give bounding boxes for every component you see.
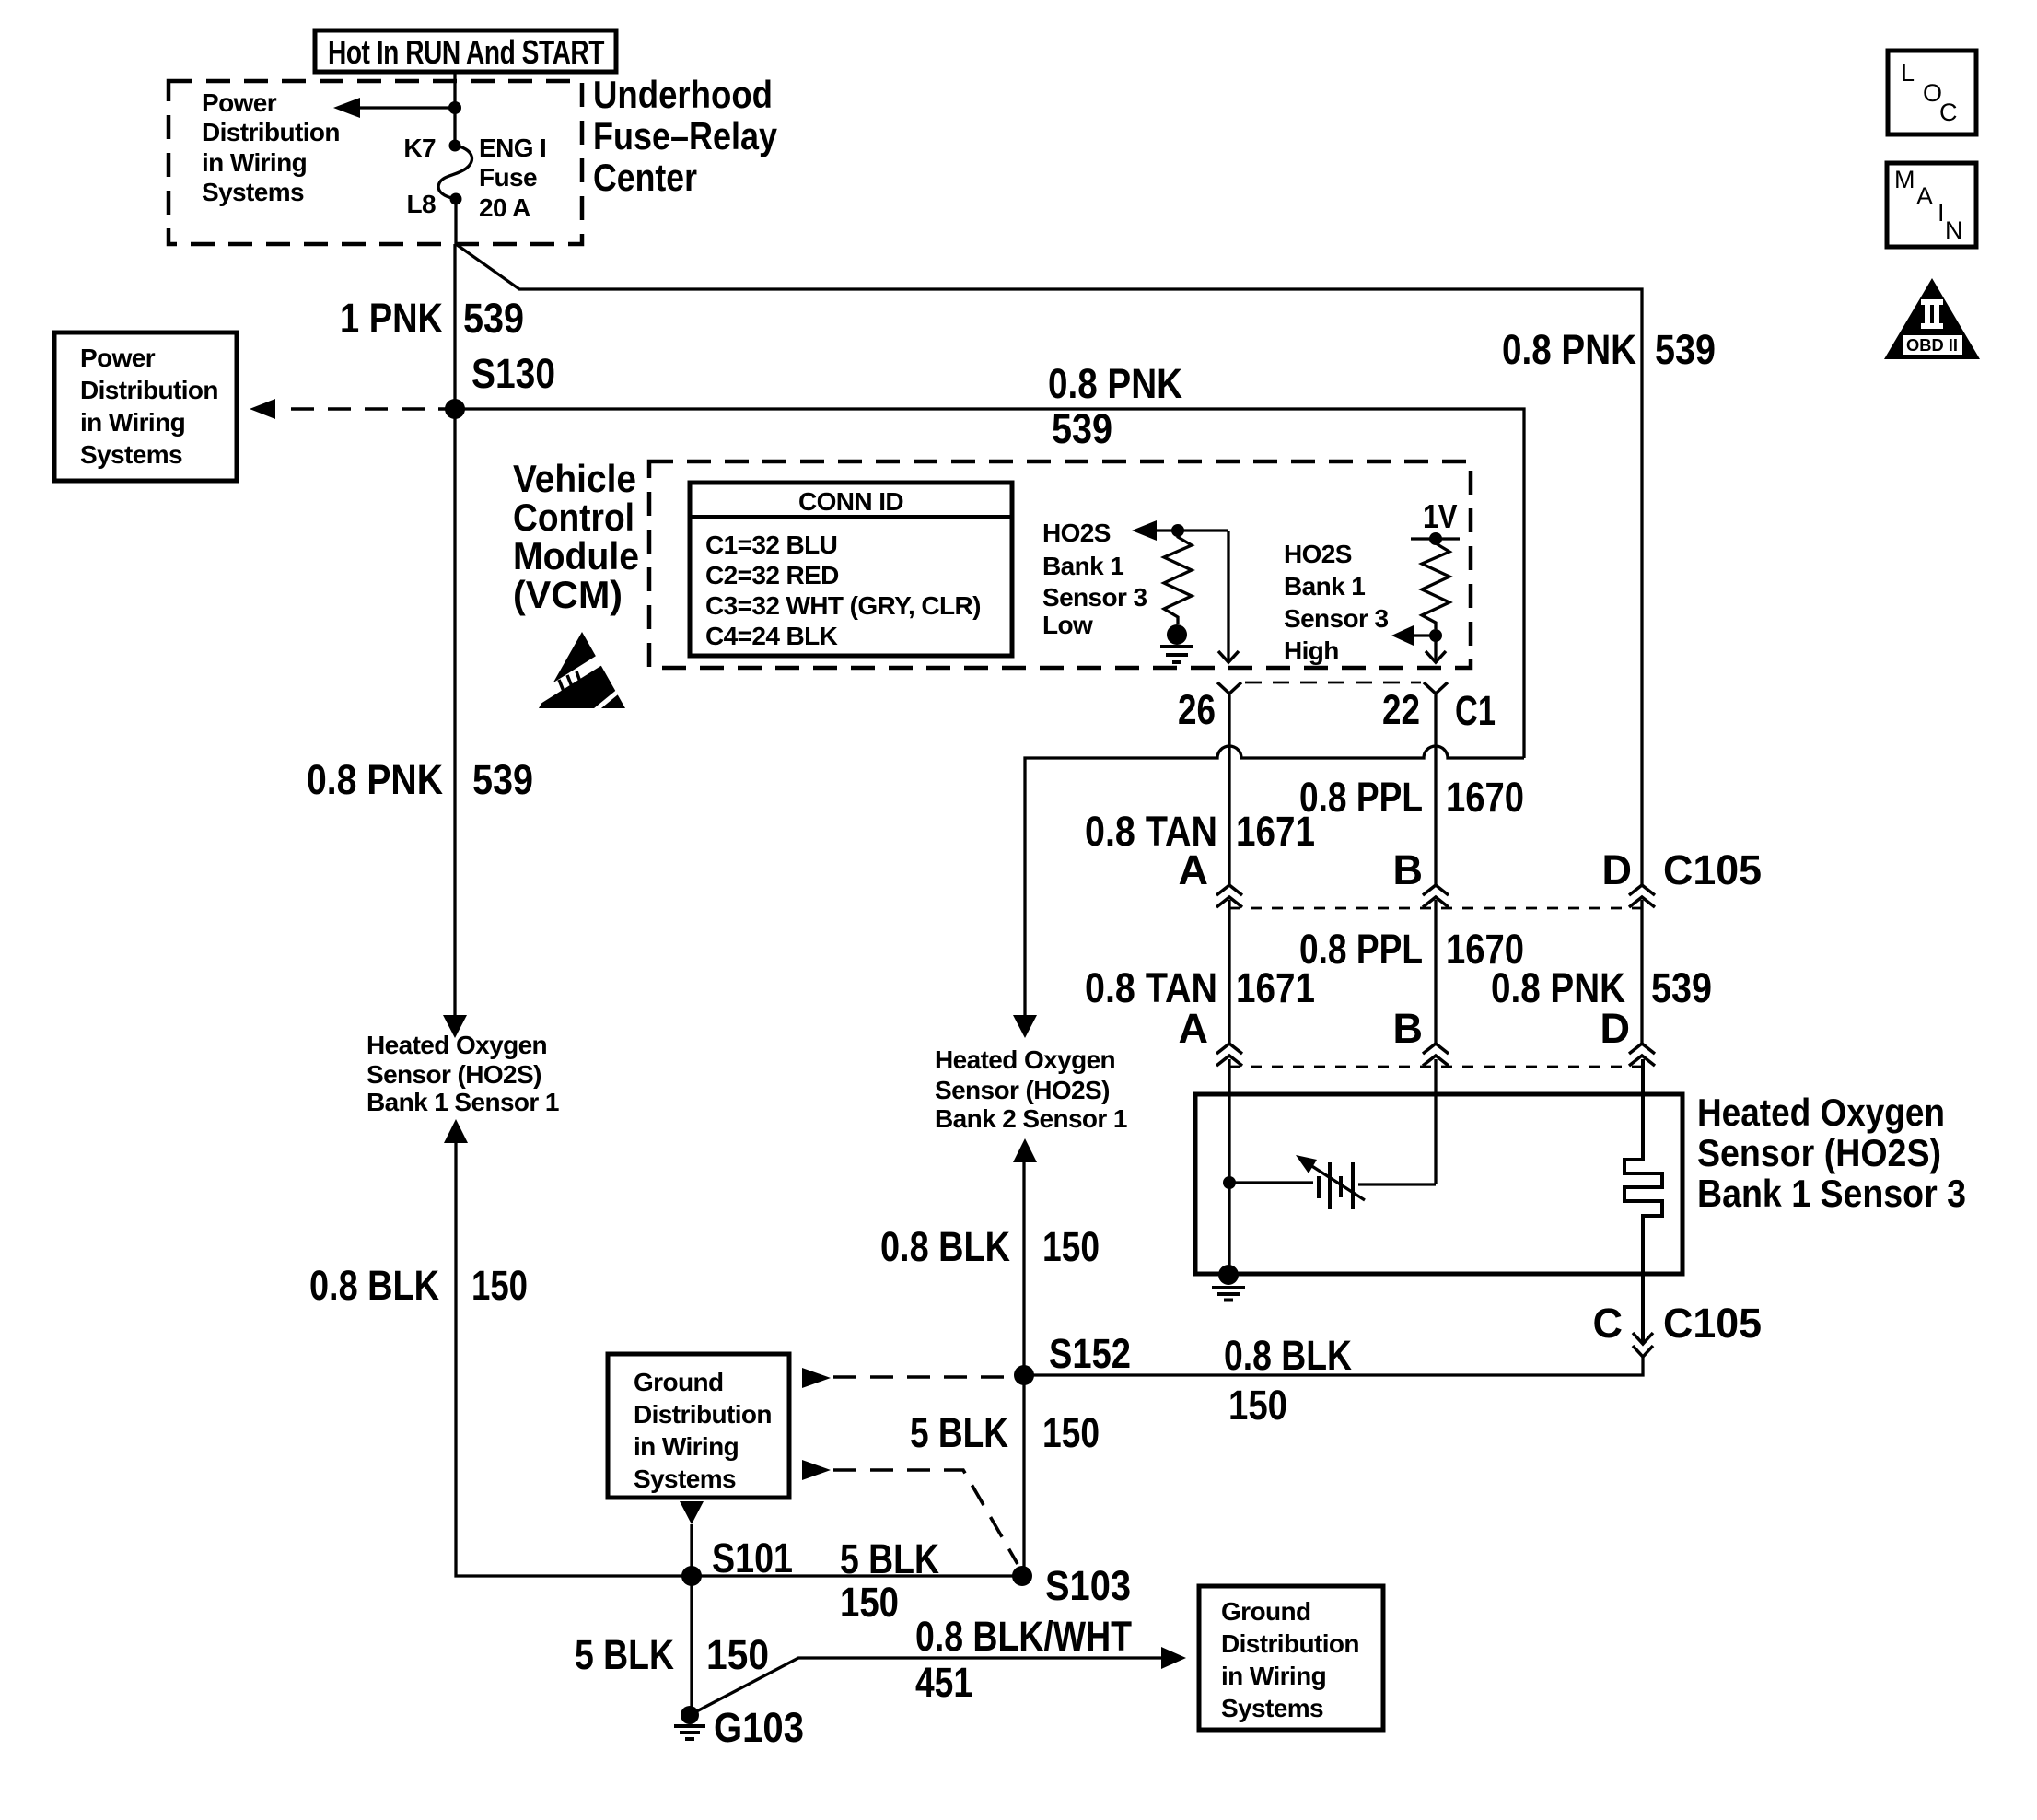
svg-text:0.8 BLK: 0.8 BLK bbox=[880, 1223, 1010, 1270]
svg-text:0.8 BLK: 0.8 BLK bbox=[1224, 1332, 1352, 1379]
svg-text:Systems: Systems bbox=[80, 440, 182, 469]
svg-text:B: B bbox=[1393, 846, 1424, 893]
fuse ENG I 20A element bbox=[438, 146, 471, 199]
fuse F-ENGI terminal K7 bbox=[449, 140, 461, 152]
connector C105 chevrons B bbox=[1423, 885, 1449, 907]
sensor ground bbox=[1212, 1265, 1245, 1301]
svg-text:0.8 PNK: 0.8 PNK bbox=[1048, 360, 1182, 407]
ground G103 bbox=[674, 1704, 804, 1751]
wire 0.8 PNK 539 right top run bbox=[456, 244, 1642, 885]
svg-text:0.8 BLK: 0.8 BLK bbox=[309, 1262, 439, 1309]
svg-text:Distribution: Distribution bbox=[80, 376, 218, 404]
wire D into sensor / heater bbox=[1624, 1059, 1662, 1343]
svg-text:Bank 1 Sensor 1: Bank 1 Sensor 1 bbox=[367, 1088, 559, 1116]
wire VCM pin 26 bbox=[1218, 531, 1239, 662]
svg-text:B: B bbox=[1393, 1005, 1424, 1052]
svg-text:Sensor 3: Sensor 3 bbox=[1042, 583, 1147, 612]
pigtail chevrons D bbox=[1629, 1044, 1655, 1066]
label 0.8 BLK 150 (bank2 wire) bbox=[880, 1223, 1100, 1270]
svg-text:I: I bbox=[1938, 199, 1945, 227]
label 5 BLK 150 (S101-G103) bbox=[575, 1631, 769, 1678]
wire pin26 to C105 A bbox=[1228, 694, 1230, 885]
svg-text:451: 451 bbox=[915, 1659, 972, 1706]
wire B into sensor bbox=[1434, 1059, 1437, 1184]
dashed wire arrow to power distribution box bbox=[250, 399, 447, 419]
svg-text:Sensor (HO2S): Sensor (HO2S) bbox=[935, 1076, 1110, 1104]
label 0.8 BLK 150 (S152 right) bbox=[1224, 1332, 1352, 1429]
label 5 BLK 150 (S152-S103) bbox=[910, 1409, 1100, 1456]
pigtail dashed line bbox=[1229, 1066, 1642, 1068]
ESD symbol bbox=[526, 632, 625, 717]
HO2S bank1 sensor3 box bbox=[1195, 1094, 1682, 1274]
wire L8 to box edge bbox=[454, 199, 457, 244]
svg-text:Heated Oxygen: Heated Oxygen bbox=[1697, 1091, 1945, 1134]
splice S152 bbox=[1014, 1330, 1131, 1385]
svg-text:A: A bbox=[1179, 1005, 1209, 1052]
svg-text:HO2S: HO2S bbox=[1042, 519, 1111, 547]
svg-text:Center: Center bbox=[593, 156, 697, 199]
svg-text:S103: S103 bbox=[1045, 1562, 1131, 1609]
node + arrow left (VCM high side) bbox=[1391, 625, 1442, 646]
svg-text:5 BLK: 5 BLK bbox=[575, 1631, 674, 1678]
connector C105 chevrons A bbox=[1216, 885, 1242, 907]
label 0.8 TAN 1671 (row1) bbox=[1085, 808, 1315, 855]
svg-text:D: D bbox=[1602, 846, 1633, 893]
resistor (VCM low side) bbox=[1164, 532, 1192, 624]
svg-text:1671: 1671 bbox=[1236, 808, 1315, 855]
svg-text:in Wiring: in Wiring bbox=[202, 148, 307, 177]
icon MAIN bbox=[1887, 163, 1976, 247]
wire VCM pin 22 bbox=[1426, 636, 1446, 662]
svg-text:22: 22 bbox=[1382, 686, 1420, 733]
svg-text:Ground: Ground bbox=[1221, 1597, 1311, 1626]
connector C1 bbox=[1178, 682, 1496, 734]
arrow to HO2S bank2 sensor1 bbox=[1013, 1015, 1037, 1038]
svg-text:539: 539 bbox=[1052, 405, 1112, 452]
pigtail chevrons A bbox=[1216, 1044, 1242, 1066]
wire S130 to VCM C1 pins (0.8 PNK 539) bbox=[455, 409, 1524, 758]
svg-text:in Wiring: in Wiring bbox=[80, 408, 185, 437]
connector C105 pin C bbox=[1593, 1300, 1763, 1357]
svg-text:C: C bbox=[1939, 99, 1958, 126]
svg-text:C2=32 RED: C2=32 RED bbox=[705, 561, 839, 589]
svg-text:Module: Module bbox=[513, 534, 639, 577]
svg-text:539: 539 bbox=[472, 756, 533, 803]
svg-text:Control: Control bbox=[513, 496, 634, 539]
svg-text:150: 150 bbox=[1228, 1382, 1287, 1429]
svg-text:150: 150 bbox=[1042, 1409, 1100, 1456]
svg-text:20 A: 20 A bbox=[479, 193, 530, 222]
svg-text:150: 150 bbox=[471, 1262, 528, 1309]
Underhood Fuse-Relay Center dashed box bbox=[169, 81, 582, 244]
svg-text:Bank 2 Sensor 1: Bank 2 Sensor 1 bbox=[935, 1104, 1127, 1133]
connector C105 chevrons D bbox=[1629, 885, 1655, 907]
label 5 BLK 150 (S101-S103) bbox=[840, 1535, 939, 1626]
svg-text:in Wiring: in Wiring bbox=[634, 1432, 739, 1461]
svg-text:1V: 1V bbox=[1423, 497, 1457, 535]
label 0.8 PNK 539 (S130 branch) bbox=[1048, 360, 1182, 452]
ground (VCM low side) bbox=[1160, 624, 1193, 662]
svg-text:0.8 PNK: 0.8 PNK bbox=[307, 756, 443, 803]
label Underhood Fuse-Relay Center bbox=[593, 73, 778, 199]
svg-text:Bank 1: Bank 1 bbox=[1042, 552, 1123, 580]
svg-text:Underhood: Underhood bbox=[593, 73, 773, 116]
svg-text:Bank 1 Sensor 3: Bank 1 Sensor 3 bbox=[1697, 1172, 1966, 1215]
svg-text:5 BLK: 5 BLK bbox=[910, 1409, 1008, 1456]
svg-text:539: 539 bbox=[463, 295, 524, 342]
box Hot In RUN And START bbox=[315, 30, 616, 72]
svg-text:Ground: Ground bbox=[634, 1368, 724, 1396]
svg-text:Systems: Systems bbox=[1221, 1694, 1323, 1722]
label Vehicle Control Module (VCM) bbox=[513, 457, 639, 616]
VCM internal node HO2S low: arrow left bbox=[1132, 520, 1228, 541]
label 0.8 BLK/WHT 451 bbox=[915, 1613, 1132, 1706]
label Heated Oxygen Sensor (HO2S) Bank 1 Sensor 1 bbox=[367, 1031, 559, 1116]
wire S130 down to HO2S bank1 sensor1 bbox=[453, 409, 456, 1015]
label Heated Oxygen Sensor (HO2S) Bank 2 Sensor 1 bbox=[935, 1045, 1127, 1133]
svg-text:150: 150 bbox=[1042, 1223, 1100, 1270]
svg-text:in Wiring: in Wiring bbox=[1221, 1662, 1326, 1690]
VCM internal node HO2S high bbox=[1411, 532, 1460, 545]
svg-text:OBD II: OBD II bbox=[1906, 336, 1958, 355]
wire crossover run to HO2S bank2 with hops bbox=[1025, 746, 1524, 1015]
svg-text:150: 150 bbox=[840, 1579, 899, 1626]
wire C105 C to S152 (0.8 BLK 150) bbox=[1024, 1357, 1643, 1375]
box Power Distribution in Wiring Systems bbox=[54, 332, 237, 481]
dashed wire to S103 bbox=[802, 1460, 1018, 1564]
svg-text:A: A bbox=[1179, 846, 1209, 893]
VCM dashed box bbox=[649, 461, 1471, 668]
svg-text:150: 150 bbox=[706, 1631, 769, 1678]
svg-text:S152: S152 bbox=[1049, 1330, 1131, 1377]
wire arrow to power distribution bbox=[333, 98, 455, 118]
label 0.8 TAN 1671 (row2) bbox=[1085, 964, 1315, 1011]
svg-text:L8: L8 bbox=[407, 190, 436, 218]
box Ground Distribution in Wiring Systems (right) bbox=[1199, 1586, 1383, 1730]
svg-text:C105: C105 bbox=[1663, 846, 1762, 893]
svg-text:5 BLK: 5 BLK bbox=[840, 1535, 939, 1582]
pigtail chevrons B bbox=[1423, 1044, 1449, 1066]
connector C105 row pin letters bbox=[1179, 846, 1763, 893]
svg-text:26: 26 bbox=[1178, 686, 1216, 733]
svg-text:Low: Low bbox=[1042, 611, 1093, 639]
wire hot box to fuse bbox=[453, 72, 456, 146]
svg-text:High: High bbox=[1284, 636, 1339, 665]
wire from ground box down to S101 bbox=[680, 1501, 704, 1576]
svg-text:Distribution: Distribution bbox=[634, 1400, 772, 1429]
svg-text:HO2S: HO2S bbox=[1284, 540, 1352, 568]
svg-text:C105: C105 bbox=[1663, 1300, 1762, 1347]
label ENG I Fuse 20 A bbox=[479, 134, 546, 222]
svg-text:Sensor (HO2S): Sensor (HO2S) bbox=[367, 1060, 541, 1089]
wire from HO2S bank1 sensor1 (0.8 BLK 150) bbox=[444, 1119, 1022, 1576]
svg-text:C: C bbox=[1593, 1300, 1624, 1347]
svg-text:Distribution: Distribution bbox=[1221, 1629, 1359, 1658]
svg-text:Systems: Systems bbox=[634, 1464, 736, 1493]
svg-text:539: 539 bbox=[1651, 964, 1712, 1011]
svg-text:0.8 PPL: 0.8 PPL bbox=[1299, 774, 1423, 821]
svg-text:C1: C1 bbox=[1455, 687, 1496, 734]
svg-text:N: N bbox=[1945, 216, 1963, 244]
box Ground Distribution in Wiring Systems (left) bbox=[608, 1354, 789, 1498]
wires between connectors (A,B,D) bbox=[1229, 900, 1642, 1044]
svg-text:Sensor (HO2S): Sensor (HO2S) bbox=[1697, 1131, 1941, 1174]
node sensor cell bbox=[1223, 1176, 1236, 1189]
svg-text:S130: S130 bbox=[471, 350, 555, 397]
connector C105 dashed line bbox=[1229, 907, 1642, 910]
svg-text:0.8 PPL: 0.8 PPL bbox=[1299, 926, 1423, 973]
sensor cell (variable battery) bbox=[1229, 1155, 1436, 1209]
svg-text:S101: S101 bbox=[712, 1534, 793, 1581]
label HO2S Bank 1 Sensor 3 High bbox=[1284, 540, 1389, 665]
label 0.8 PNK 539 (right) bbox=[1502, 326, 1716, 373]
svg-text:1670: 1670 bbox=[1446, 774, 1524, 821]
svg-text:CONN ID: CONN ID bbox=[798, 487, 903, 516]
svg-text:Fuse: Fuse bbox=[479, 163, 537, 192]
svg-text:Fuse–Relay: Fuse–Relay bbox=[593, 114, 778, 157]
wire from HO2S bank2 sensor1 down to S152/S103 bbox=[1013, 1138, 1037, 1576]
splice S103 bbox=[1012, 1562, 1131, 1609]
arrow to HO2S bank1 sensor1 bbox=[443, 1015, 467, 1038]
svg-text:Power: Power bbox=[80, 344, 156, 372]
svg-text:K7: K7 bbox=[403, 134, 436, 162]
svg-text:1671: 1671 bbox=[1236, 964, 1315, 1011]
svg-text:Hot In RUN And START: Hot In RUN And START bbox=[328, 33, 604, 71]
svg-text:Systems: Systems bbox=[202, 178, 304, 206]
svg-text:Heated Oxygen: Heated Oxygen bbox=[367, 1031, 547, 1059]
svg-text:C3=32 WHT (GRY, CLR): C3=32 WHT (GRY, CLR) bbox=[705, 591, 981, 620]
wire A into sensor bbox=[1228, 1059, 1230, 1275]
svg-text:D: D bbox=[1600, 1005, 1631, 1052]
svg-text:Sensor 3: Sensor 3 bbox=[1284, 604, 1389, 633]
svg-text:0.8 BLK/WHT: 0.8 BLK/WHT bbox=[915, 1613, 1132, 1660]
wire G103 to ground distribution (0.8 BLK/WHT 451) bbox=[690, 1647, 1186, 1715]
label 0.8 PPL 1670 (row1) bbox=[1299, 774, 1524, 821]
splice S130 bbox=[445, 399, 465, 419]
svg-text:G103: G103 bbox=[714, 1704, 804, 1751]
svg-text:C1=32 BLU: C1=32 BLU bbox=[705, 531, 837, 559]
wire 1 PNK 539 to S130 bbox=[453, 244, 456, 409]
svg-text:C4=24 BLK: C4=24 BLK bbox=[705, 622, 838, 650]
label 1 PNK 539 bbox=[340, 295, 524, 342]
svg-text:(VCM): (VCM) bbox=[513, 573, 623, 616]
label HO2S Bank 1 Sensor 3 Low bbox=[1042, 519, 1147, 639]
icon LOC bbox=[1888, 51, 1976, 134]
svg-text:L: L bbox=[1901, 59, 1915, 87]
pigtail connector row2 letters bbox=[1179, 1005, 1631, 1052]
resistor (VCM high side) bbox=[1422, 539, 1449, 629]
dashed wire to S152 bbox=[802, 1368, 1013, 1388]
svg-text:Heated Oxygen: Heated Oxygen bbox=[935, 1045, 1115, 1074]
label 0.8 BLK 150 (left) bbox=[309, 1262, 528, 1309]
svg-text:539: 539 bbox=[1655, 326, 1716, 373]
wire S101 to G103 bbox=[690, 1576, 693, 1715]
svg-text:Power: Power bbox=[202, 88, 277, 117]
icon OBD II triangle bbox=[1884, 278, 1980, 359]
svg-text:A: A bbox=[1916, 182, 1933, 210]
wire pin22 to C105 B bbox=[1434, 694, 1437, 885]
svg-text:ENG I: ENG I bbox=[479, 134, 546, 162]
svg-text:Distribution: Distribution bbox=[202, 118, 340, 146]
label Heated Oxygen Sensor (HO2S) Bank 1 Sensor 3 bbox=[1697, 1091, 1966, 1215]
svg-text:1 PNK: 1 PNK bbox=[340, 295, 443, 342]
svg-text:M: M bbox=[1894, 166, 1915, 193]
svg-text:Bank 1: Bank 1 bbox=[1284, 572, 1365, 601]
svg-text:0.8 PNK: 0.8 PNK bbox=[1502, 326, 1636, 373]
label 0.8 PNK 539 (left run) bbox=[307, 756, 533, 803]
fuse F-ENGI terminal L8 bbox=[450, 193, 462, 205]
splice S101 bbox=[681, 1534, 793, 1586]
node branch to power distribution bbox=[448, 101, 461, 114]
label 0.8 PNK 539 (row2) bbox=[1491, 964, 1712, 1011]
CONN ID table bbox=[690, 483, 1012, 656]
label Power Distribution in Wiring Systems (fuse box) bbox=[202, 88, 340, 206]
label 0.8 PPL 1670 (row2) bbox=[1299, 926, 1524, 973]
svg-text:Vehicle: Vehicle bbox=[513, 457, 636, 500]
